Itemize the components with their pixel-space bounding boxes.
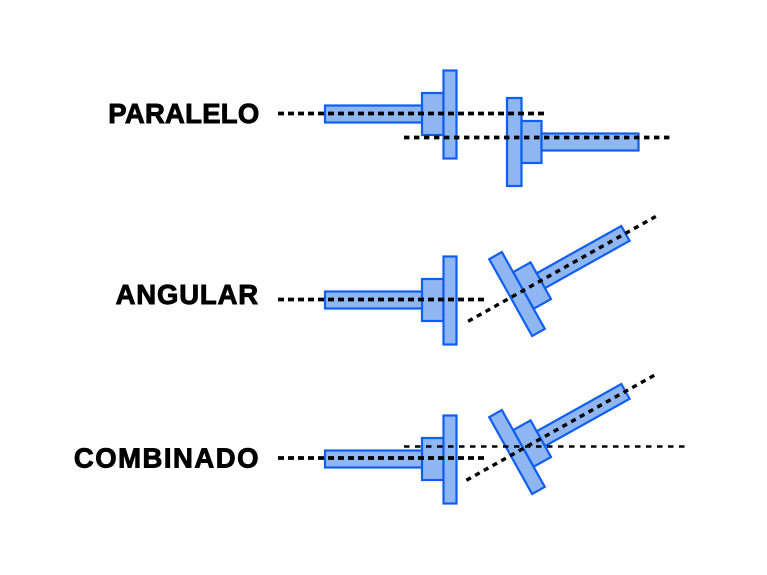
- tilted right coupling hub row 3: [513, 420, 551, 466]
- left axis centerline row 3: [278, 456, 484, 460]
- right shaft row 1: [542, 134, 639, 151]
- left axis centerline row 1: [278, 112, 548, 116]
- left coupling flange row 2: [444, 257, 457, 345]
- tilted right coupling assembly row 3: [445, 336, 677, 519]
- left shaft row 2: [325, 292, 426, 309]
- tilted right coupling flange row 2: [489, 252, 545, 336]
- right axis centerline row 1 (offset): [404, 136, 673, 140]
- tilted axis centerline row 3: [466, 374, 655, 480]
- svg-text:COMBINADO: COMBINADO: [74, 443, 260, 474]
- svg-text:ANGULAR: ANGULAR: [116, 279, 259, 310]
- left coupling hub row 1: [422, 93, 444, 135]
- left coupling hub row 3: [422, 438, 444, 480]
- left coupling hub row 2: [422, 279, 444, 321]
- svg-text:PARALELO: PARALELO: [108, 98, 259, 129]
- tilted right coupling assembly row 2: [447, 178, 678, 360]
- left shaft row 3: [325, 451, 426, 468]
- right coupling flange row 1: [507, 98, 522, 186]
- left axis centerline row 2: [278, 298, 485, 302]
- left coupling flange row 1: [444, 71, 457, 159]
- tilted right shaft row 3: [537, 384, 630, 446]
- left shaft row 1: [325, 106, 426, 123]
- tilted right shaft row 2: [537, 226, 630, 288]
- tilted axis centerline row 2: [468, 216, 656, 321]
- right coupling hub row 1: [522, 121, 542, 163]
- tilted right coupling flange row 3: [489, 410, 545, 494]
- left coupling flange row 3: [444, 416, 457, 504]
- tilted right coupling hub row 2: [513, 262, 551, 308]
- offset reference line row 3 (thin): [404, 445, 689, 448]
